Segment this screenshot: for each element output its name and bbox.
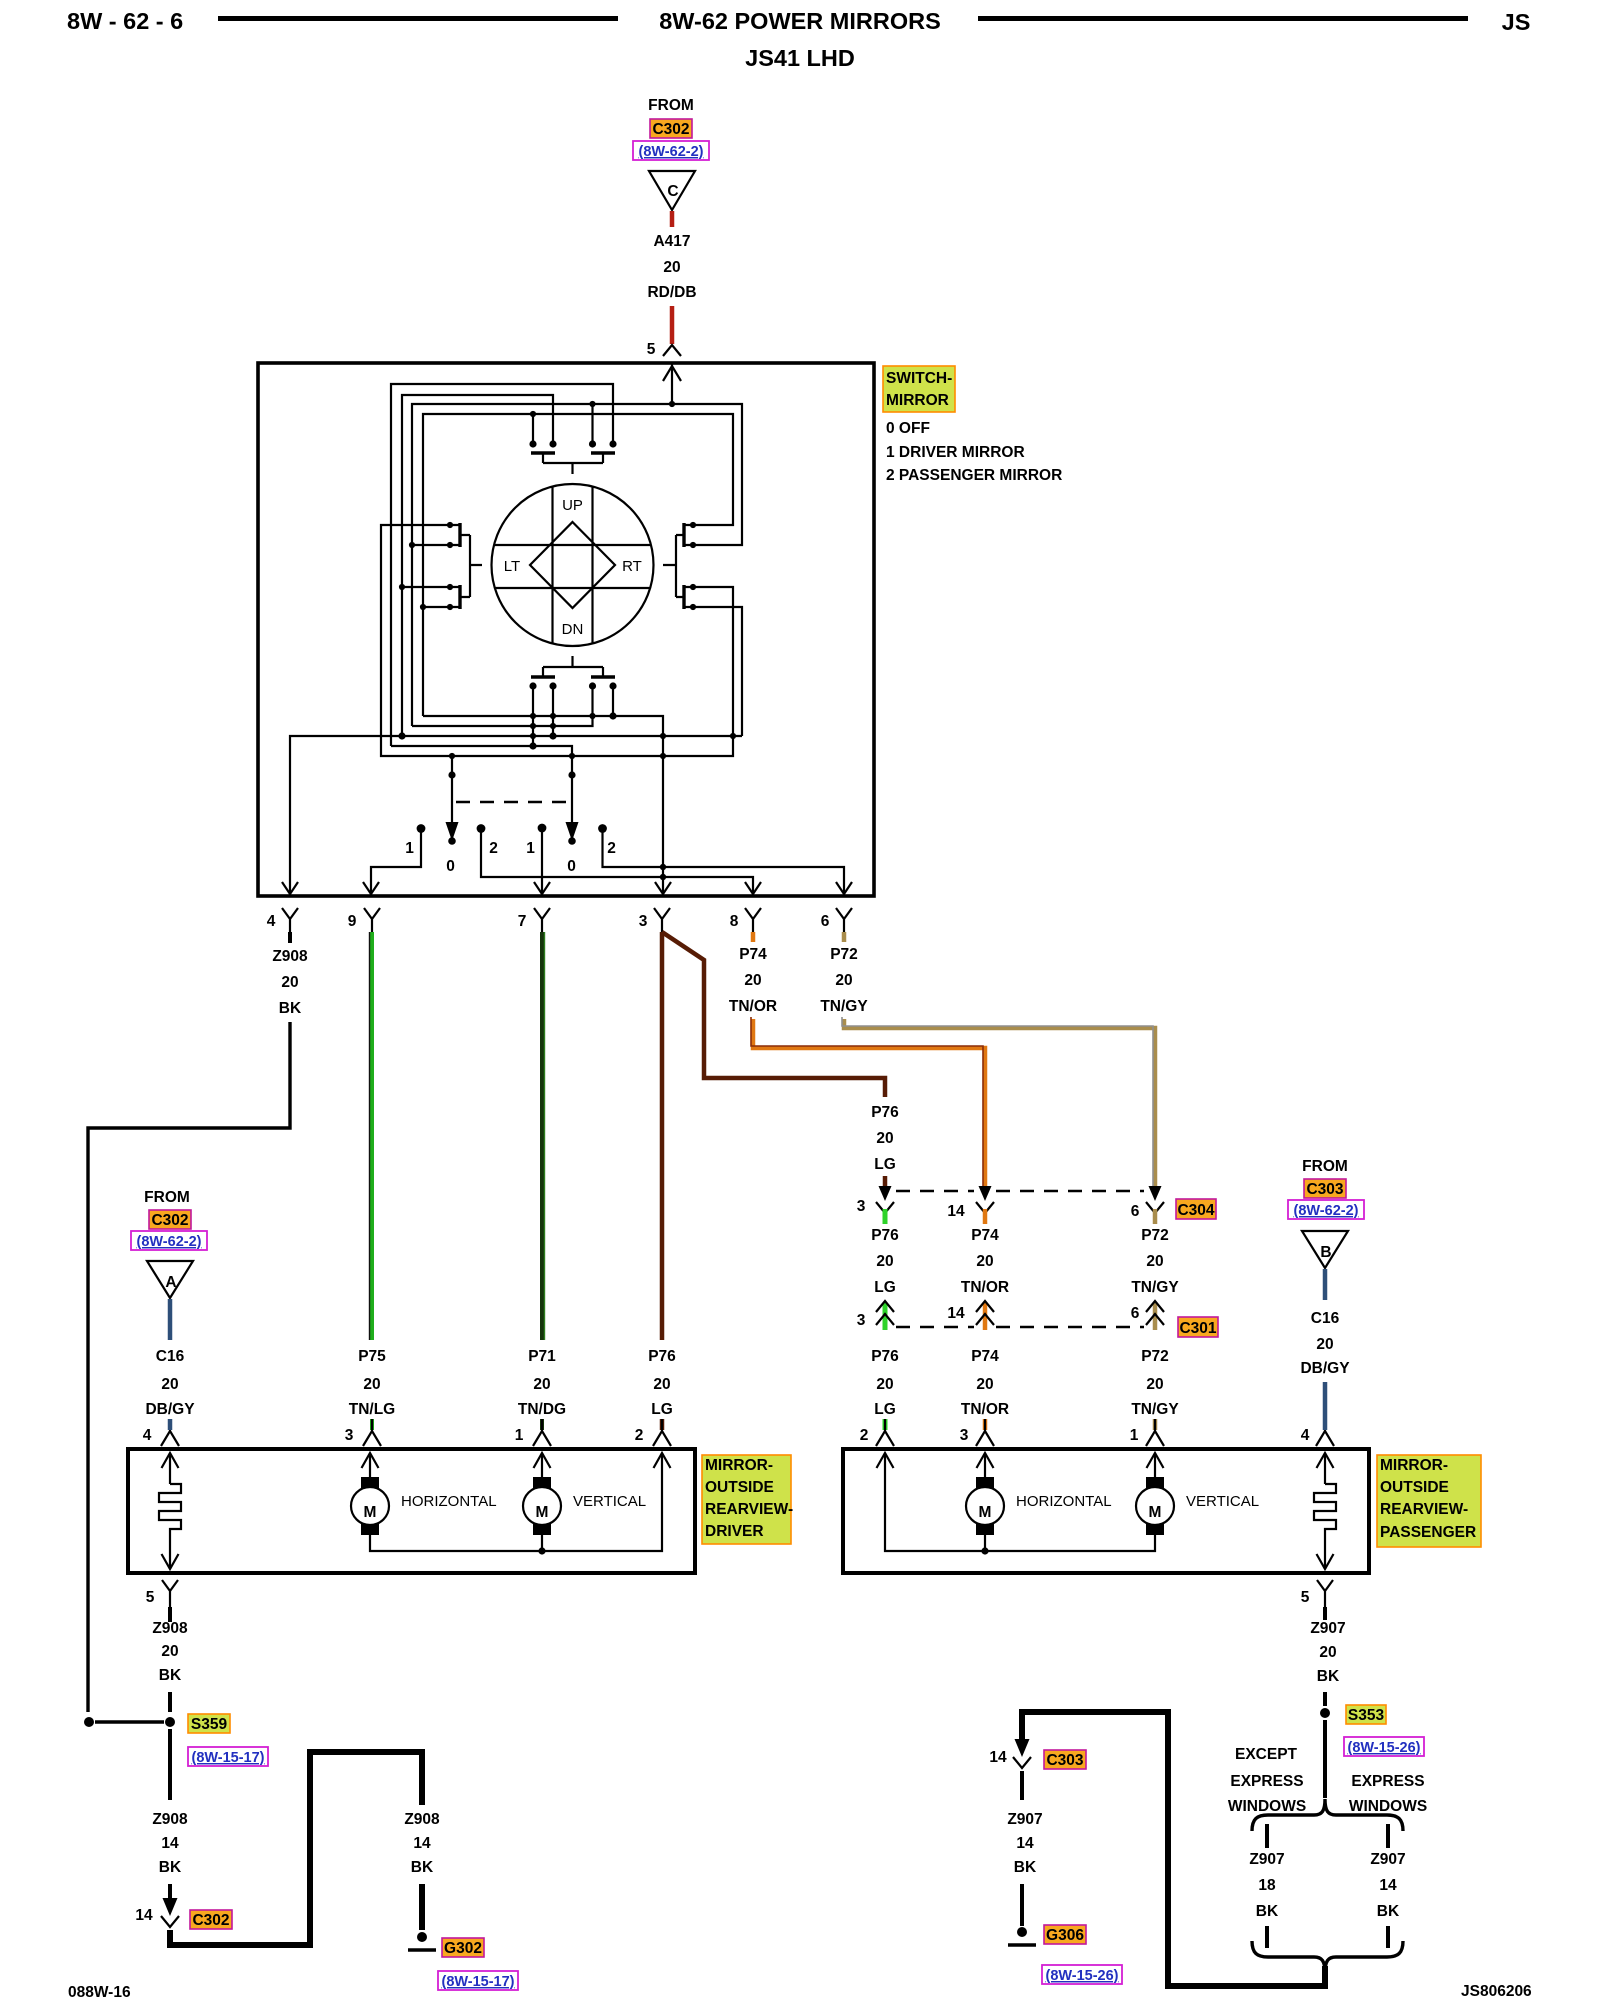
svg-text:9: 9 (348, 913, 357, 930)
svg-text:TN/OR: TN/OR (961, 1279, 1009, 1296)
svg-text:6: 6 (1131, 1203, 1140, 1220)
svg-text:2 PASSENGER MIRROR: 2 PASSENGER MIRROR (886, 467, 1062, 484)
svg-text:20: 20 (533, 1376, 550, 1393)
svg-text:Z908: Z908 (404, 1811, 440, 1828)
svg-text:M: M (1149, 1504, 1162, 1521)
svg-text:TN/OR: TN/OR (729, 998, 777, 1015)
svg-text:HORIZONTAL: HORIZONTAL (401, 1493, 497, 1510)
svg-text:JS806206: JS806206 (1461, 1983, 1532, 2000)
svg-text:(8W-62-2): (8W-62-2) (639, 144, 704, 160)
svg-text:DB/GY: DB/GY (145, 1401, 195, 1418)
svg-text:3: 3 (639, 913, 648, 930)
svg-text:P76: P76 (871, 1348, 899, 1365)
svg-text:BK: BK (1256, 1903, 1279, 1920)
svg-text:1: 1 (1130, 1427, 1139, 1444)
svg-text:RD/DB: RD/DB (647, 284, 696, 301)
svg-text:Z908: Z908 (272, 948, 308, 965)
svg-text:P72: P72 (1141, 1348, 1169, 1365)
svg-text:BK: BK (1317, 1668, 1340, 1685)
svg-text:EXPRESS: EXPRESS (1230, 1773, 1303, 1790)
svg-text:20: 20 (161, 1376, 178, 1393)
svg-text:BK: BK (279, 1000, 302, 1017)
svg-text:M: M (979, 1504, 992, 1521)
svg-text:Z907: Z907 (1249, 1851, 1284, 1868)
svg-text:WINDOWS: WINDOWS (1349, 1798, 1427, 1815)
svg-text:UP: UP (562, 497, 583, 514)
svg-text:FROM: FROM (648, 97, 694, 114)
svg-text:PASSENGER: PASSENGER (1380, 1524, 1476, 1541)
svg-text:2: 2 (489, 840, 498, 857)
svg-text:TN/GY: TN/GY (1131, 1401, 1179, 1418)
svg-text:(8W-62-2): (8W-62-2) (1294, 1203, 1359, 1219)
svg-text:BK: BK (411, 1859, 434, 1876)
svg-text:3: 3 (345, 1427, 354, 1444)
svg-text:DN: DN (562, 621, 584, 638)
svg-text:C16: C16 (1311, 1310, 1340, 1327)
svg-text:0: 0 (567, 858, 576, 875)
svg-text:C302: C302 (652, 121, 689, 138)
svg-text:Z908: Z908 (152, 1811, 188, 1828)
svg-text:(8W-15-26): (8W-15-26) (1347, 1740, 1420, 1756)
svg-text:1: 1 (515, 1427, 524, 1444)
svg-text:C303: C303 (1306, 1181, 1343, 1198)
svg-text:2: 2 (860, 1427, 869, 1444)
svg-text:P72: P72 (1141, 1227, 1169, 1244)
svg-text:A: A (165, 1274, 176, 1291)
svg-text:DRIVER: DRIVER (705, 1523, 764, 1540)
svg-text:8W - 62 - 6: 8W - 62 - 6 (67, 8, 183, 34)
svg-text:20: 20 (835, 972, 852, 989)
svg-text:2: 2 (607, 840, 616, 857)
svg-text:BK: BK (159, 1859, 182, 1876)
svg-text:2: 2 (635, 1427, 644, 1444)
svg-text:P74: P74 (971, 1227, 999, 1244)
svg-text:BK: BK (1377, 1903, 1400, 1920)
svg-text:14: 14 (413, 1835, 431, 1852)
svg-text:20: 20 (161, 1643, 178, 1660)
svg-text:TN/DG: TN/DG (518, 1401, 566, 1418)
svg-text:P76: P76 (871, 1227, 899, 1244)
svg-text:20: 20 (1319, 1644, 1336, 1661)
svg-text:14: 14 (1379, 1877, 1397, 1894)
svg-text:TN/GY: TN/GY (820, 998, 868, 1015)
svg-text:5: 5 (1301, 1589, 1310, 1606)
svg-text:S359: S359 (191, 1716, 228, 1733)
svg-text:0 OFF: 0 OFF (886, 420, 930, 437)
svg-text:BK: BK (159, 1667, 182, 1684)
svg-text:LG: LG (651, 1401, 673, 1418)
svg-text:3: 3 (857, 1198, 866, 1215)
svg-text:C16: C16 (156, 1348, 185, 1365)
svg-text:Z908: Z908 (152, 1620, 188, 1637)
svg-text:P76: P76 (871, 1104, 899, 1121)
svg-text:C: C (667, 183, 678, 200)
svg-text:DB/GY: DB/GY (1300, 1360, 1350, 1377)
svg-text:P75: P75 (358, 1348, 386, 1365)
svg-text:3: 3 (960, 1427, 969, 1444)
svg-text:(8W-62-2): (8W-62-2) (137, 1234, 202, 1250)
svg-text:(8W-15-17): (8W-15-17) (191, 1750, 264, 1766)
svg-text:20: 20 (663, 259, 680, 276)
svg-text:20: 20 (653, 1376, 670, 1393)
svg-text:14: 14 (947, 1305, 965, 1322)
svg-text:WINDOWS: WINDOWS (1228, 1798, 1306, 1815)
svg-text:BK: BK (1014, 1859, 1037, 1876)
svg-text:P76: P76 (648, 1348, 676, 1365)
svg-text:P71: P71 (528, 1348, 556, 1365)
svg-text:MIRROR-: MIRROR- (705, 1457, 773, 1474)
svg-text:JS: JS (1502, 9, 1531, 35)
svg-text:14: 14 (947, 1203, 965, 1220)
svg-text:20: 20 (1146, 1376, 1163, 1393)
svg-text:14: 14 (1016, 1835, 1034, 1852)
svg-text:OUTSIDE: OUTSIDE (1380, 1479, 1449, 1496)
svg-text:MIRROR-: MIRROR- (1380, 1457, 1448, 1474)
svg-text:088W-16: 088W-16 (68, 1984, 131, 2000)
svg-text:RT: RT (622, 558, 642, 575)
svg-text:TN/OR: TN/OR (961, 1401, 1009, 1418)
svg-text:20: 20 (744, 972, 761, 989)
svg-text:Z907: Z907 (1310, 1620, 1345, 1637)
svg-text:3: 3 (857, 1312, 866, 1329)
svg-text:14: 14 (161, 1835, 179, 1852)
svg-text:1 DRIVER MIRROR: 1 DRIVER MIRROR (886, 444, 1025, 461)
svg-text:HORIZONTAL: HORIZONTAL (1016, 1493, 1112, 1510)
svg-text:14: 14 (135, 1907, 153, 1924)
svg-text:LG: LG (874, 1279, 896, 1296)
svg-text:4: 4 (267, 913, 276, 930)
svg-text:LG: LG (874, 1401, 896, 1418)
svg-text:B: B (1320, 1244, 1331, 1261)
svg-text:8W-62 POWER MIRRORS: 8W-62 POWER MIRRORS (659, 8, 941, 34)
svg-text:20: 20 (976, 1253, 993, 1270)
svg-text:G306: G306 (1046, 1927, 1084, 1944)
svg-text:18: 18 (1258, 1877, 1276, 1894)
svg-text:C304: C304 (1177, 1202, 1214, 1219)
svg-text:20: 20 (1146, 1253, 1163, 1270)
svg-text:P74: P74 (739, 946, 767, 963)
svg-text:20: 20 (976, 1376, 993, 1393)
svg-text:MIRROR: MIRROR (886, 392, 949, 409)
svg-text:M: M (536, 1504, 549, 1521)
svg-text:(8W-15-26): (8W-15-26) (1045, 1968, 1118, 1984)
svg-text:20: 20 (281, 974, 298, 991)
svg-text:7: 7 (518, 913, 527, 930)
svg-text:Z907: Z907 (1370, 1851, 1405, 1868)
svg-text:S353: S353 (1348, 1707, 1385, 1724)
svg-text:A417: A417 (653, 233, 690, 250)
svg-text:6: 6 (821, 913, 830, 930)
svg-text:VERTICAL: VERTICAL (573, 1493, 646, 1510)
svg-text:4: 4 (1301, 1427, 1310, 1444)
svg-text:4: 4 (143, 1427, 152, 1444)
svg-text:SWITCH-: SWITCH- (886, 370, 952, 387)
svg-text:JS41 LHD: JS41 LHD (745, 45, 855, 71)
svg-text:5: 5 (647, 341, 656, 358)
svg-text:C302: C302 (192, 1912, 229, 1929)
svg-text:FROM: FROM (1302, 1158, 1348, 1175)
svg-text:REARVIEW-: REARVIEW- (705, 1501, 793, 1518)
svg-text:TN/GY: TN/GY (1131, 1279, 1179, 1296)
svg-text:M: M (364, 1504, 377, 1521)
svg-text:(8W-15-17): (8W-15-17) (441, 1974, 514, 1990)
svg-text:C303: C303 (1046, 1752, 1083, 1769)
svg-text:1: 1 (526, 840, 535, 857)
svg-text:C301: C301 (1179, 1320, 1216, 1337)
svg-text:14: 14 (989, 1749, 1007, 1766)
svg-text:G302: G302 (444, 1940, 482, 1957)
svg-text:P74: P74 (971, 1348, 999, 1365)
svg-text:1: 1 (405, 840, 414, 857)
svg-text:6: 6 (1131, 1305, 1140, 1322)
svg-text:20: 20 (1316, 1336, 1333, 1353)
svg-text:20: 20 (876, 1253, 893, 1270)
svg-text:FROM: FROM (144, 1189, 190, 1206)
svg-text:REARVIEW-: REARVIEW- (1380, 1501, 1468, 1518)
svg-text:8: 8 (730, 913, 739, 930)
svg-text:0: 0 (446, 858, 455, 875)
svg-text:20: 20 (876, 1376, 893, 1393)
svg-text:20: 20 (876, 1130, 893, 1147)
svg-text:Z907: Z907 (1007, 1811, 1042, 1828)
svg-text:LG: LG (874, 1156, 896, 1173)
svg-text:LT: LT (504, 558, 520, 575)
svg-text:C302: C302 (151, 1212, 188, 1229)
svg-text:VERTICAL: VERTICAL (1186, 1493, 1259, 1510)
svg-text:EXCEPT: EXCEPT (1235, 1746, 1298, 1763)
svg-text:TN/LG: TN/LG (349, 1401, 396, 1418)
svg-text:P72: P72 (830, 946, 858, 963)
svg-text:5: 5 (146, 1589, 155, 1606)
svg-text:20: 20 (363, 1376, 380, 1393)
svg-text:EXPRESS: EXPRESS (1351, 1773, 1424, 1790)
svg-text:OUTSIDE: OUTSIDE (705, 1479, 774, 1496)
